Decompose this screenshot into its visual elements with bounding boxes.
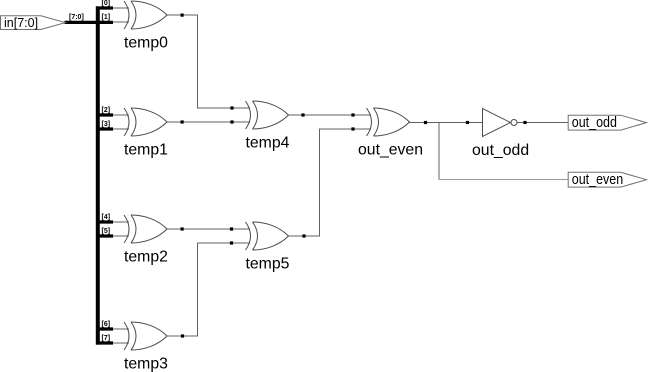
svg-text:[4]: [4]	[102, 214, 111, 221]
svg-text:[5]: [5]	[102, 228, 111, 235]
svg-text:out_odd: out_odd	[572, 114, 617, 130]
svg-text:[7:0]: [7:0]	[69, 14, 84, 21]
svg-text:[7]: [7]	[102, 335, 111, 342]
svg-text:[0]: [0]	[102, 0, 111, 7]
svg-text:temp2: temp2	[124, 249, 168, 266]
svg-text:[6]: [6]	[102, 321, 111, 328]
svg-text:temp4: temp4	[246, 135, 290, 152]
svg-text:[2]: [2]	[102, 107, 111, 114]
svg-text:[3]: [3]	[102, 121, 111, 128]
svg-text:out_even: out_even	[572, 171, 623, 187]
svg-text:temp5: temp5	[246, 256, 290, 273]
svg-text:out_odd: out_odd	[472, 142, 529, 159]
svg-text:out_even: out_even	[358, 142, 423, 159]
svg-text:temp3: temp3	[124, 356, 168, 372]
svg-text:temp0: temp0	[124, 35, 168, 52]
svg-text:temp1: temp1	[124, 142, 168, 159]
svg-text:[1]: [1]	[102, 14, 111, 21]
svg-text:in[7:0]: in[7:0]	[4, 16, 38, 30]
